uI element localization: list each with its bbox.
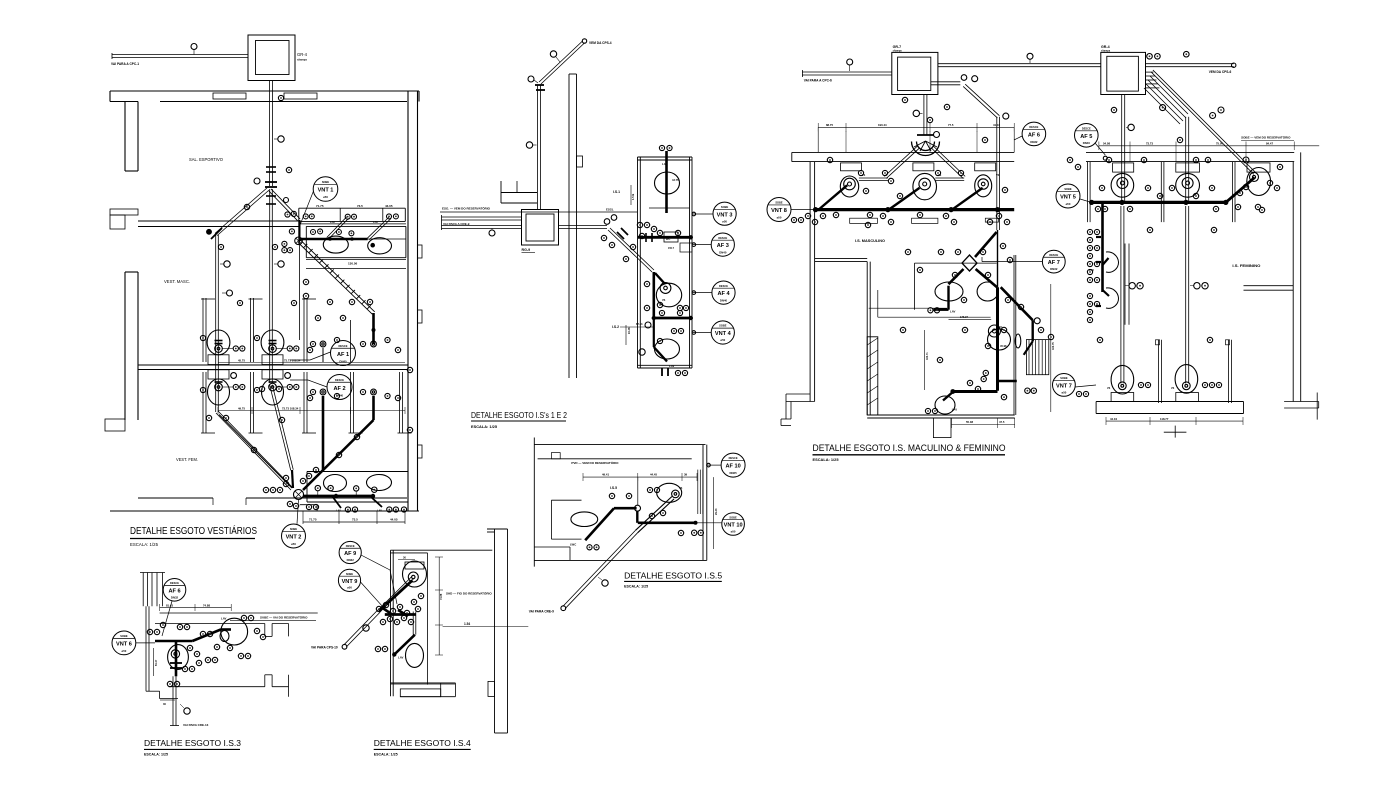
svg-text:73.73 108.34: 73.73 108.34 — [284, 358, 301, 362]
svg-text:DETALHE ESGOTO I.S.5: DETALHE ESGOTO I.S.5 — [624, 571, 722, 581]
dim line lower room — [218, 410, 405, 412]
svg-text:94.48: 94.48 — [627, 327, 631, 334]
wall: middle horizontal — [138, 364, 408, 366]
bottom lavatory ellipses — [324, 475, 347, 492]
svg-text:AF 4: AF 4 — [717, 291, 730, 297]
dim line bottom — [303, 521, 405, 523]
svg-text:39: 39 — [684, 473, 688, 477]
triple diagonal center line — [219, 415, 292, 489]
balloon VNT 1 — [313, 177, 338, 202]
svg-text:I.S.5: I.S.5 — [610, 486, 617, 490]
svg-text:AF 6: AF 6 — [1028, 132, 1040, 138]
svg-text:DESCE: DESCE — [718, 236, 727, 240]
svg-text:ø50: ø50 — [291, 542, 296, 546]
pipe: diagonal to stall column — [215, 188, 267, 234]
hatch wall — [867, 337, 878, 415]
svg-text:LAV: LAV — [221, 617, 227, 621]
svg-text:VAI PARA A CPC-1: VAI PARA A CPC-1 — [111, 62, 139, 66]
svg-text:71.75: 71.75 — [316, 204, 324, 208]
fan diagonals — [884, 146, 917, 176]
masc bottom wall — [867, 414, 1015, 416]
svg-text:AF 6: AF 6 — [168, 588, 180, 594]
balloon AF 4 — [712, 281, 735, 304]
label circles toilet — [233, 346, 238, 351]
balloon VNT 10 — [722, 513, 745, 536]
dim line upper room under toilets — [218, 362, 405, 364]
svg-text:LWC: LWC — [570, 543, 576, 547]
diamond junction — [962, 255, 977, 271]
balloon AF 6 — [1022, 122, 1046, 146]
tall wall right of pipe — [568, 74, 570, 378]
fem bottom wall — [1096, 401, 1243, 403]
svg-text:71.75: 71.75 — [309, 518, 317, 522]
balloon VNT 7 — [1053, 374, 1076, 397]
svg-text:84.47: 84.47 — [1266, 142, 1273, 146]
dim vertical inner — [438, 557, 440, 655]
toilet WC upper — [261, 330, 284, 355]
balloon AF 1 — [331, 341, 356, 366]
svg-text:SOBE — VEM DO RESERVATÓRIO: SOBE — VEM DO RESERVATÓRIO — [1241, 135, 1291, 140]
svg-text:VS: VS — [662, 299, 666, 302]
right vertical thick — [997, 230, 999, 287]
svg-text:LAV: LAV — [952, 408, 958, 412]
balloon VNT 4 — [711, 321, 734, 344]
svg-text:VEM DA CPS-4: VEM DA CPS-4 — [589, 41, 612, 45]
svg-text:SOBE: SOBE — [719, 324, 727, 328]
svg-text:1.54: 1.54 — [464, 622, 470, 626]
svg-text:1.5 B: 1.5 B — [631, 194, 635, 200]
svg-text:SUBE — VAI DO RESERVATÓRIO: SUBE — VAI DO RESERVATÓRIO — [260, 615, 308, 620]
pipes to left — [442, 219, 522, 221]
basins masc lower — [935, 282, 963, 301]
junction J1 — [265, 181, 277, 183]
right wall — [1292, 162, 1294, 402]
long thin dbl diagonal to CRE-9 — [563, 530, 636, 606]
T2 bundle stubs + diagonals — [1146, 71, 1154, 73]
balloon VNT 3 — [713, 202, 736, 225]
thick dbl diagonal from WC — [636, 497, 672, 531]
balloon VNT 5 — [1056, 184, 1080, 208]
thick pipe in counter — [299, 238, 367, 241]
svg-text:ESCALA: 1/25: ESCALA: 1/25 — [624, 585, 648, 589]
svg-text:LAV: LAV — [950, 310, 956, 314]
wall: top exterior — [110, 90, 419, 92]
svg-text:I.S.2: I.S.2 — [612, 325, 619, 329]
svg-text:VAI PARA A CRE-9: VAI PARA A CRE-9 — [443, 222, 470, 226]
svg-text:49.75: 49.75 — [238, 406, 245, 410]
wall: left mid stub — [110, 209, 138, 215]
drains row1 — [320, 341, 326, 347]
svg-text:SOBE: SOBE — [1060, 376, 1068, 380]
svg-text:73.5: 73.5 — [357, 204, 363, 208]
bottom junction cluster — [294, 490, 304, 500]
svg-text:73.73 108.34: 73.73 108.34 — [282, 406, 299, 410]
svg-text:LAV: LAV — [662, 162, 668, 166]
long diagonal double from stall col to junction — [216, 413, 291, 490]
thick vertical to junction2 — [652, 272, 655, 318]
svg-text:ø50: ø50 — [323, 195, 328, 199]
FG circle — [988, 325, 1000, 337]
svg-text:102.75: 102.75 — [1052, 342, 1055, 350]
svg-text:47.5: 47.5 — [999, 420, 1005, 424]
svg-text:ESGL: ESGL — [606, 208, 614, 212]
svg-text:VNT 9: VNT 9 — [342, 579, 358, 585]
svg-text:SOBE: SOBE — [290, 527, 298, 531]
svg-text:VS: VS — [938, 174, 942, 177]
svg-text:ø50: ø50 — [722, 219, 727, 223]
WC IS5 — [657, 483, 682, 502]
svg-text:DN32: DN32 — [347, 558, 355, 562]
pipe: vertical stall column 1 — [215, 235, 217, 412]
svg-text:GR-4: GR-4 — [297, 52, 308, 57]
short thick bits — [381, 607, 390, 613]
svg-text:SOBE: SOBE — [721, 205, 729, 209]
svg-text:VAI PARA CRE-9: VAI PARA CRE-9 — [529, 610, 554, 614]
svg-text:I.S.1: I.S.1 — [613, 190, 620, 194]
svg-text:DESCE: DESCE — [1082, 126, 1091, 130]
tank T2 — [1101, 52, 1146, 94]
svg-text:VS: VS — [1107, 387, 1111, 390]
svg-text:DESCE: DESCE — [346, 544, 355, 548]
svg-text:VS: VS — [862, 174, 866, 177]
circles right of pipes — [1137, 283, 1143, 289]
svg-text:55.08: 55.08 — [966, 420, 973, 424]
left wall — [809, 162, 811, 402]
svg-text:77.5: 77.5 — [948, 123, 954, 127]
svg-text:ø50: ø50 — [777, 216, 782, 220]
main wall top — [792, 151, 1014, 153]
svg-text:VNT 2: VNT 2 — [286, 535, 302, 541]
dim line — [583, 476, 697, 478]
vertical dbl pipe right of T1 — [996, 117, 998, 230]
svg-text:LAV: LAV — [669, 364, 675, 368]
dim right — [713, 477, 715, 549]
svg-text:LAV: LAV — [1089, 268, 1094, 272]
T1 bottom vertical — [923, 95, 925, 136]
line under band — [299, 223, 406, 225]
bottom counter rect — [307, 471, 408, 473]
WC top IS4 — [403, 561, 427, 587]
left wall bottom step — [786, 393, 810, 395]
balloon AF 2 — [327, 375, 352, 400]
small hatched oval — [1015, 334, 1021, 348]
svg-text:s/tampa: s/tampa — [297, 58, 307, 62]
line pair top — [160, 612, 318, 614]
label circle — [191, 44, 197, 50]
wall: bottom exterior — [138, 497, 213, 499]
dim bottom masc — [952, 424, 1015, 426]
svg-text:ø50: ø50 — [121, 649, 126, 653]
svg-text:GR-4: GR-4 — [1101, 45, 1110, 49]
closet left — [551, 499, 581, 501]
balloon AF 3 — [711, 233, 734, 256]
extra dim verticals masc row — [845, 131, 847, 152]
svg-text:VAI PARA CRE-13: VAI PARA CRE-13 — [183, 723, 209, 727]
wall: left upper — [124, 102, 126, 172]
top lavatory — [655, 172, 680, 194]
svg-text:VS: VS — [996, 174, 1000, 177]
extra circles left drawing — [244, 204, 249, 209]
right room edge line — [1013, 255, 1015, 415]
svg-text:190.44: 190.44 — [878, 123, 887, 127]
more circles right drawing — [1111, 107, 1116, 112]
svg-text:DESCE: DESCE — [170, 581, 179, 585]
pipe: vertical main from tank — [269, 81, 271, 187]
svg-text:DESCE: DESCE — [1049, 253, 1058, 257]
masc stalls row — [841, 163, 862, 171]
IS1/IS2 room rect — [637, 157, 639, 368]
svg-text:41.04: 41.04 — [993, 123, 1000, 127]
svg-text:ø50: ø50 — [731, 529, 736, 533]
thick pipe AF4 row — [654, 317, 691, 320]
couplers — [645, 233, 647, 242]
wall bump — [577, 156, 583, 167]
vent dbl diagonal parallel — [378, 576, 412, 610]
pilaster bumps right wall — [418, 245, 423, 258]
svg-text:VNT 4: VNT 4 — [715, 331, 732, 337]
svg-text:ø50: ø50 — [347, 586, 352, 590]
svg-text:43.05: 43.05 — [385, 204, 393, 208]
vertical VA from T2 — [1121, 95, 1123, 203]
svg-text:s/tampa: s/tampa — [893, 50, 903, 53]
thin pipes from left wall — [869, 307, 947, 309]
svg-text:LAV: LAV — [377, 509, 382, 513]
dim verticals masc lower — [923, 330, 925, 390]
vertical VB — [1185, 117, 1187, 203]
svg-text:74.88: 74.88 — [440, 593, 443, 600]
pipe from tank right — [559, 228, 608, 230]
elbow to LAV — [394, 635, 415, 655]
svg-text:ESCALA: 1/25: ESCALA: 1/25 — [130, 542, 159, 547]
stall partitions upper room — [202, 298, 204, 362]
svg-text:DN25: DN25 — [730, 471, 738, 475]
svg-text:SOBE: SOBE — [775, 201, 783, 205]
svg-text:I.S. FEMININO: I.S. FEMININO — [1232, 264, 1260, 268]
right wall bottom step — [1284, 401, 1319, 403]
svg-text:87.13: 87.13 — [636, 322, 643, 326]
basin big circle — [221, 618, 248, 645]
svg-text:29.43: 29.43 — [714, 508, 718, 515]
fem bottom WCs — [1111, 365, 1134, 394]
thick pipe AF3 — [638, 236, 691, 239]
balloon VNT 6 — [112, 631, 136, 655]
svg-text:ESCALA: 1/25: ESCALA: 1/25 — [813, 458, 839, 462]
svg-text:DESCE: DESCE — [335, 378, 344, 382]
svg-text:WC: WC — [666, 237, 670, 241]
dim 176.97 — [949, 318, 992, 320]
left wall stub — [501, 192, 537, 194]
fem mid toilets — [1106, 252, 1119, 272]
svg-text:AF 10: AF 10 — [725, 464, 740, 470]
svg-text:AF 2: AF 2 — [333, 386, 345, 392]
benches below main — [850, 218, 878, 223]
svg-text:ESG. — VEM DO RESERVATÓRIO: ESG. — VEM DO RESERVATÓRIO — [442, 206, 491, 211]
svg-text:DESCE: DESCE — [719, 284, 728, 288]
outer boundary IS5 — [533, 438, 535, 567]
svg-text:100.71: 100.71 — [926, 352, 929, 360]
thick hatched diagonal down — [298, 243, 372, 315]
dim + cross below — [1106, 420, 1243, 422]
long thin reference line — [440, 211, 637, 213]
masc toilets — [840, 176, 858, 197]
junction cluster upper — [295, 237, 303, 245]
svg-text:DESCE: DESCE — [339, 344, 348, 348]
balloon VNT 9 — [338, 569, 360, 591]
svg-text:73.73: 73.73 — [1146, 142, 1153, 146]
thick verticals from diagonal to drains — [372, 313, 375, 344]
lower wall with notch up — [169, 686, 265, 688]
svg-text:VAI PARA A CPC-6: VAI PARA A CPC-6 — [804, 79, 832, 83]
svg-text:44.45: 44.45 — [650, 473, 657, 477]
pipe: diagonal to shelf junction — [269, 191, 298, 221]
svg-text:ESCALA: 1/25: ESCALA: 1/25 — [144, 753, 168, 757]
AF6 leader — [162, 601, 172, 636]
dim line fem — [1099, 145, 1294, 147]
svg-text:AF 9: AF 9 — [344, 551, 356, 557]
tank CS — [522, 210, 559, 246]
svg-text:SOBE: SOBE — [1064, 187, 1072, 191]
toilet WC lower — [208, 370, 229, 379]
counter band upper-right — [306, 225, 406, 227]
basin lower left — [935, 396, 955, 414]
svg-text:176.97: 176.97 — [960, 315, 968, 319]
main thick pipe fem — [1092, 201, 1226, 204]
svg-text:GR-7: GR-7 — [893, 45, 902, 49]
svg-text:ø50: ø50 — [1066, 202, 1071, 206]
lower branch — [653, 318, 655, 347]
masc lower room lines — [914, 263, 916, 310]
dim small — [153, 648, 155, 676]
svg-text:s/tampa: s/tampa — [1101, 50, 1111, 53]
svg-text:LAV: LAV — [330, 220, 335, 224]
WC bowl on stack — [988, 329, 1011, 350]
svg-text:VNT 7: VNT 7 — [1056, 383, 1072, 389]
svg-text:SAL. ESPORTIVO: SAL. ESPORTIVO — [189, 157, 224, 162]
svg-text:SOBE: SOBE — [120, 634, 128, 638]
bottom platform IS4 — [391, 682, 456, 684]
WC IS3 — [171, 650, 179, 658]
svg-text:118.77: 118.77 — [1160, 417, 1169, 421]
svg-text:DN32: DN32 — [171, 595, 179, 599]
svg-text:43.75: 43.75 — [672, 178, 679, 182]
svg-text:ESCALA: 1/25: ESCALA: 1/25 — [374, 753, 398, 757]
wall hatch top-left — [142, 573, 144, 607]
balloon AF 9 — [339, 541, 361, 563]
svg-text:AF 3: AF 3 — [717, 243, 729, 249]
tank T1 — [892, 52, 938, 94]
svg-text:VS: VS — [679, 487, 683, 490]
svg-text:73.5: 73.5 — [352, 518, 358, 522]
svg-text:54.08: 54.08 — [1103, 142, 1110, 146]
svg-text:VEST. MASC.: VEST. MASC. — [164, 279, 190, 284]
second inner line — [306, 268, 406, 270]
tank GR-4 — [248, 35, 295, 81]
pipe T2 right CPS-6 — [1146, 66, 1234, 68]
pipe: vertical main continues — [269, 189, 271, 383]
thick diagonal from WC — [379, 580, 412, 611]
scatter circles IS3 — [147, 629, 152, 634]
fem stalls — [1087, 162, 1089, 223]
diagonal to IS1 — [608, 230, 652, 272]
leaders to balloons — [692, 213, 713, 215]
masc horizontal pipe segs — [859, 180, 888, 182]
svg-text:DESCE: DESCE — [1029, 125, 1038, 129]
thick pipe basin — [947, 286, 949, 310]
wall: bottom-left corner block — [105, 419, 125, 431]
pipe couplers — [266, 166, 276, 168]
inner line 130.56 — [306, 259, 406, 261]
svg-text:RG-9: RG-9 — [522, 248, 531, 252]
svg-text:DETALHE ESGOTO I.S. MACULINO &: DETALHE ESGOTO I.S. MACULINO & FEMININO — [813, 443, 1006, 453]
mid WC — [656, 283, 681, 307]
svg-text:DETALHE ESGOTO I.S.3: DETALHE ESGOTO I.S.3 — [144, 738, 241, 748]
masc interior wall stub — [815, 258, 868, 260]
svg-text:130.56: 130.56 — [348, 262, 358, 266]
dim top — [160, 607, 232, 609]
misc small circles left drawing — [278, 95, 283, 100]
svg-text:84.47: 84.47 — [155, 659, 158, 666]
dim line masc — [818, 126, 1014, 128]
thick vertical left drain down — [322, 430, 325, 470]
balloon VNT 2 — [282, 524, 306, 548]
svg-text:AF 5: AF 5 — [1080, 134, 1092, 140]
svg-text:AF 7: AF 7 — [1048, 260, 1060, 266]
svg-text:VEM DA CPS-6: VEM DA CPS-6 — [1209, 70, 1232, 74]
svg-text:VNT 5: VNT 5 — [1060, 195, 1076, 201]
svg-text:44.05: 44.05 — [390, 518, 398, 522]
svg-text:45.75: 45.75 — [238, 358, 245, 362]
pipe: horizontal to CPC-1 — [112, 57, 248, 59]
wall: right exterior — [407, 91, 409, 511]
main thick pipe masc — [816, 208, 1015, 211]
svg-text:SOBE: SOBE — [322, 180, 330, 184]
svg-text:DN32: DN32 — [1030, 140, 1038, 144]
svg-text:ø50: ø50 — [720, 338, 725, 342]
svg-text:PVD — VEM DO RESERVATÓRIO: PVD — VEM DO RESERVATÓRIO — [571, 460, 619, 465]
inner top wall w/ step — [538, 458, 692, 460]
pipe T1 lower right + diagonal — [931, 84, 961, 86]
stall partitions lower room — [202, 372, 204, 433]
svg-text:DETALHE ESGOTO VESTIÁRIOS: DETALHE ESGOTO VESTIÁRIOS — [130, 524, 257, 537]
toilet WC lower — [262, 370, 283, 379]
tall wall right — [494, 529, 496, 733]
balloon AF 10 — [721, 453, 745, 477]
svg-text:VS: VS — [1171, 387, 1175, 390]
label circles toilet — [287, 346, 292, 351]
wall bottom-left piece — [534, 546, 570, 548]
svg-text:45.98: 45.98 — [1000, 344, 1007, 348]
svg-text:VAI PARA CPS-10: VAI PARA CPS-10 — [311, 646, 338, 650]
rect small — [664, 232, 678, 242]
thick pipes IS5 — [614, 507, 637, 510]
svg-text:DETALHE ESGOTO I.S's 1 E 2: DETALHE ESGOTO I.S's 1 E 2 — [471, 410, 567, 420]
long dbl diagonal CPS-10 — [346, 612, 380, 647]
svg-text:LAV: LAV — [336, 509, 341, 513]
balloon AF 7 — [1042, 250, 1065, 273]
svg-text:SHD — FIO DO RESERVATÓRIO: SHD — FIO DO RESERVATÓRIO — [446, 591, 492, 596]
svg-text:44.04: 44.04 — [1110, 417, 1117, 421]
svg-text:LAV: LAV — [373, 220, 378, 224]
svg-text:88.75: 88.75 — [826, 123, 833, 127]
upper shelf band — [299, 207, 406, 209]
svg-text:DN40: DN40 — [720, 298, 728, 302]
diagonal from right drain to bottom junction — [303, 420, 374, 490]
fan junction — [912, 142, 940, 156]
leader VNT1 — [300, 191, 314, 225]
junction cluster IS4 — [385, 613, 416, 616]
svg-text:49.41: 49.41 — [602, 473, 609, 477]
svg-text:150.7: 150.7 — [668, 247, 675, 250]
